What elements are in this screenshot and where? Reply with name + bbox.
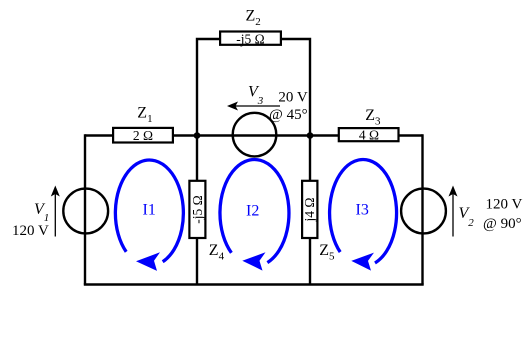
wire: outer loop frame (left, bottom, right, middle horizontal) (84, 39, 424, 285)
svg-text:-j5 Ω: -j5 Ω (236, 32, 264, 47)
svg-text:V1: V1 (34, 201, 49, 224)
V1 polarity arrow (51, 186, 60, 237)
svg-text:Z1: Z1 (137, 105, 152, 126)
wire right vertical (421, 134, 423, 284)
V2 polarity arrow (449, 186, 458, 237)
source V3 circle (233, 113, 277, 157)
svg-text:j4 Ω: j4 Ω (302, 198, 317, 223)
mesh current I2 arrowhead (242, 252, 265, 270)
svg-text:120 V: 120 V (486, 197, 523, 213)
svg-text:Z3: Z3 (365, 107, 381, 128)
wire bottom (84, 283, 424, 285)
wire middle horizontal bus y=135.5 (85, 134, 423, 136)
svg-text:I1: I1 (143, 202, 156, 219)
svg-text:20 V: 20 V (278, 90, 307, 106)
wire Z5 branch vertical (309, 136, 311, 285)
node junction dot left (top of Z4) (194, 132, 201, 139)
wire Z4 branch vertical (196, 136, 198, 285)
svg-text:Z2: Z2 (246, 8, 261, 29)
mesh current I3 loop arc (330, 160, 397, 263)
mesh current I2 loop arc (220, 160, 289, 263)
svg-text:2 Ω: 2 Ω (133, 128, 153, 143)
resistor Z3 box (339, 128, 399, 141)
svg-text:@ 90°: @ 90° (483, 216, 522, 232)
svg-text:I2: I2 (246, 203, 259, 220)
resistor Z5 box (302, 181, 317, 238)
svg-text:V3: V3 (248, 83, 264, 107)
svg-text:@ 45°: @ 45° (269, 107, 308, 123)
svg-text:4 Ω: 4 Ω (359, 128, 379, 143)
svg-text:-j5 Ω: -j5 Ω (190, 195, 205, 223)
wire Z2 top branch (197, 39, 310, 136)
svg-text:V2: V2 (459, 205, 475, 229)
source V1 circle (63, 189, 108, 234)
svg-text:I3: I3 (356, 202, 369, 219)
mesh current I1 arrowhead (136, 252, 160, 271)
resistor Z1 box (113, 128, 173, 143)
svg-text:120 V: 120 V (12, 223, 49, 239)
V3 polarity arrow (227, 102, 280, 111)
resistor Z4 box (189, 181, 205, 238)
mesh current I3 arrowhead (351, 253, 374, 271)
resistor Z2 box (220, 32, 281, 45)
svg-text:Z5: Z5 (319, 242, 335, 263)
source V2 circle (401, 189, 446, 234)
wire left vertical (84, 134, 86, 284)
node junction dot right (top of Z5) (307, 132, 314, 139)
mesh current I1 loop arc (115, 160, 183, 262)
svg-text:Z4: Z4 (209, 242, 225, 263)
